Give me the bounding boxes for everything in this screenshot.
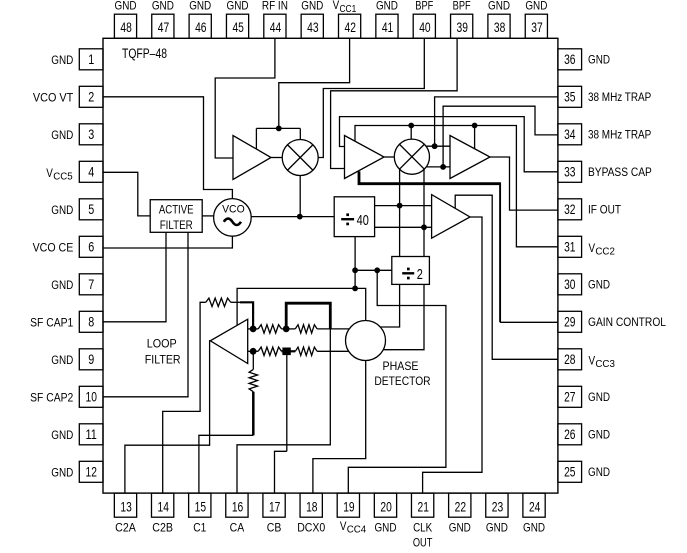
svg-text:13: 13 (120, 499, 132, 515)
pin 41 box (top) (376, 14, 398, 38)
junction dot pin35 tap (432, 143, 438, 149)
svg-text:33: 33 (564, 164, 576, 180)
wire: A2 output to M2 (384, 156, 394, 158)
pin 45 box (top) (226, 14, 248, 38)
svg-text:CLK: CLK (413, 521, 433, 535)
wire: div40 bottom down (354, 237, 356, 289)
svg-text:GND: GND (588, 465, 610, 479)
wire: bold jumper from R2-R3 node over R3 to CA (286, 303, 330, 329)
svg-text:CC5: CC5 (53, 172, 73, 183)
pin 17 box (bottom) (263, 493, 285, 517)
svg-text:GND: GND (227, 0, 249, 12)
IC package outline TQFP-48 (103, 38, 558, 493)
wire: VCC2 rail to A3 top edge (474, 126, 476, 149)
wire: A4 output to CLK OUT pin 21 (423, 217, 482, 493)
svg-text:34: 34 (564, 126, 576, 142)
wire: R4-R5 junction bold (282, 350, 296, 352)
resistor R6 (vertical, below op-amp input) (249, 369, 257, 391)
svg-text:GND: GND (152, 0, 174, 12)
wire: M1 output up and right to BPF pin 40 (318, 38, 424, 157)
junction dot reference node (352, 286, 358, 292)
junction square R4-R5 node (282, 348, 290, 356)
divide-by-40 symbol (341, 218, 354, 220)
pin 4 box (left) (79, 161, 103, 182)
pin 10 box (left) (79, 386, 103, 407)
wire: div40 output 2 to A4 lower input (375, 226, 432, 228)
mixer M2 circle with X (394, 139, 429, 174)
svg-text:GND: GND (51, 53, 73, 67)
wire: M2 LO right down to div2 top (423, 169, 425, 256)
pin 31 box (right) (558, 236, 582, 257)
svg-text:12: 12 (86, 464, 98, 480)
svg-text:VCO: VCO (222, 203, 245, 215)
junction dot op-amp upper input (250, 326, 257, 333)
svg-text:14: 14 (158, 499, 170, 515)
svg-text:CC4: CC4 (347, 525, 367, 536)
svg-text:GND: GND (486, 521, 508, 535)
svg-text:LOOP: LOOP (147, 337, 177, 351)
op-amp U1 (loop filter) triangle pointing left (210, 319, 247, 363)
svg-text:2: 2 (88, 89, 94, 105)
svg-text:GAIN CONTROL: GAIN CONTROL (588, 315, 666, 329)
svg-text:GND: GND (376, 0, 398, 12)
wire: div2 output 2 to phase detector (384, 284, 424, 349)
wire: VCC2 pin 31 rail over A2 M2 A3 (355, 126, 558, 247)
pin 22 box (bottom) (449, 493, 471, 517)
svg-text:47: 47 (158, 19, 170, 35)
svg-text:6: 6 (88, 239, 94, 255)
svg-text:CC1: CC1 (340, 4, 357, 15)
wire: R6 to C1 pin 15 (199, 435, 253, 493)
svg-text:10: 10 (86, 389, 98, 405)
pin 12 box (left) (79, 461, 103, 482)
svg-text:26: 26 (564, 426, 576, 442)
svg-text:23: 23 (492, 499, 504, 515)
wire: op-amp output down to C2A pin 13 (125, 341, 210, 493)
svg-text:41: 41 (382, 19, 394, 35)
pin 32 box (right) (558, 199, 582, 220)
svg-text:8: 8 (88, 314, 94, 330)
svg-text:15: 15 (195, 499, 207, 515)
junction dot R2-R3 node (283, 326, 290, 333)
junction dot VCC2-M2 (408, 123, 414, 129)
wire: M1 LO port down to VCO line (299, 176, 301, 217)
pin 33 box (right) (558, 161, 582, 182)
svg-text:GND: GND (523, 521, 545, 535)
svg-text:44: 44 (270, 19, 282, 35)
svg-text:29: 29 (564, 314, 576, 330)
wire: gain control lower segment to pin 29 (500, 321, 558, 323)
wire: VCC3 pin 28 up to A4 top (455, 195, 558, 359)
svg-text:IF OUT: IF OUT (588, 203, 621, 217)
pin 30 box (right) (558, 274, 582, 295)
svg-text:25: 25 (564, 464, 576, 480)
svg-text:C2A: C2A (115, 521, 136, 535)
svg-text:GND: GND (525, 0, 547, 12)
pin 35 box (right) (558, 86, 582, 107)
pin 19 box (bottom) (337, 493, 359, 517)
svg-text:20: 20 (380, 499, 392, 515)
pin 37 box (top) (525, 14, 547, 38)
junction dot pin34 tap (440, 164, 446, 170)
wire: op-amp lower input stub (248, 350, 259, 352)
wire: M2 LO left down to div2 top (399, 169, 401, 256)
wire: op-amp upper input stub (248, 328, 259, 330)
svg-text:FILTER: FILTER (145, 353, 181, 367)
svg-text:CC2: CC2 (595, 247, 615, 258)
svg-text:GND: GND (51, 128, 73, 142)
wire: R6 bottom lead bold (252, 392, 255, 436)
pin 29 box (right) (558, 311, 582, 332)
svg-text:GND: GND (449, 521, 471, 535)
svg-text:TQFP–48: TQFP–48 (122, 46, 167, 61)
svg-text:16: 16 (232, 499, 244, 515)
pin 26 box (right) (558, 424, 582, 445)
svg-text:48: 48 (120, 19, 132, 35)
svg-text:39: 39 (457, 19, 469, 35)
active filter block (150, 200, 202, 233)
svg-text:GND: GND (51, 278, 73, 292)
svg-text:40: 40 (357, 212, 369, 229)
wire: bias to A1 top edge (255, 128, 257, 148)
svg-text:36: 36 (564, 51, 576, 67)
pin 9 box (left) (79, 349, 103, 370)
junction dot div40 bottom (352, 267, 358, 273)
svg-text:9: 9 (88, 351, 94, 367)
wire: phase detector bottom to DCX0 pin 18 (313, 361, 366, 494)
pin 42 box (top) (339, 14, 361, 38)
wire: VCC5 pin 4 to active filter input (103, 172, 150, 216)
svg-text:V: V (333, 0, 340, 12)
wire: VCC1 pin 42 down and left to bias node (279, 38, 350, 128)
pin 2 box (left) (79, 86, 103, 107)
pin 15 box (bottom) (189, 493, 211, 517)
svg-text:35: 35 (564, 89, 576, 105)
pin 27 box (right) (558, 386, 582, 407)
svg-text:SF CAP1: SF CAP1 (30, 315, 73, 329)
svg-text:ACTIVE: ACTIVE (159, 203, 194, 217)
svg-text:31: 31 (564, 239, 576, 255)
svg-text:V: V (46, 166, 53, 180)
wire: R4-R5 node down (286, 351, 288, 451)
svg-text:C1: C1 (193, 521, 206, 535)
junction dot VCC1 bias node (276, 125, 282, 131)
svg-text:21: 21 (418, 499, 430, 515)
svg-text:5: 5 (88, 201, 94, 217)
pin 43 box (top) (301, 14, 323, 38)
svg-text:OUT: OUT (413, 535, 433, 549)
junction dot op-amp lower input (250, 348, 257, 355)
pin 36 box (right) (558, 49, 582, 70)
pin 1 box (left) (79, 49, 103, 70)
svg-text:4: 4 (88, 164, 94, 180)
svg-text:GND: GND (51, 465, 73, 479)
wire: BPF pin 39 down to A2 lower input (331, 38, 458, 168)
svg-text:18: 18 (306, 499, 318, 515)
divide-by-40 block (334, 197, 374, 237)
wire: VCC2 rail to M2 top (410, 126, 412, 140)
svg-text:GND: GND (588, 278, 610, 292)
wire: BYPASS CAP pin 33 to A2 upper input (340, 117, 558, 172)
wire: R3 to phase detector input 1 (317, 328, 349, 330)
divide-by-2 symbol (402, 272, 414, 274)
svg-text:GND: GND (51, 353, 73, 367)
svg-text:28: 28 (564, 351, 576, 367)
wire: A3 output to IF OUT pin 32 (490, 157, 558, 210)
pin 48 box (top) (114, 14, 136, 38)
svg-text:38: 38 (494, 19, 506, 35)
amplifier A4 (clock buffer) triangle (432, 195, 470, 239)
wire: M2 upper output to A3 (426, 145, 450, 147)
svg-text:19: 19 (343, 499, 355, 515)
svg-text:43: 43 (307, 19, 319, 35)
VCO circle (214, 199, 252, 237)
pin 46 box (top) (189, 14, 211, 38)
wire: R5 to phase detector input 2 (317, 350, 349, 352)
pin 25 box (right) (558, 461, 582, 482)
svg-text:BYPASS CAP: BYPASS CAP (588, 165, 652, 179)
pin 40 box (top) (413, 14, 435, 38)
svg-text:V: V (340, 519, 347, 533)
svg-text:45: 45 (232, 19, 244, 35)
svg-text:GND: GND (51, 203, 73, 217)
resistor R5 (lower row to phase detector) (295, 347, 317, 355)
pin 11 box (left) (79, 424, 103, 445)
divide-by-2 block (392, 257, 430, 285)
svg-text:40: 40 (419, 19, 431, 35)
wire: VCO VT pin 2 to VCO top (103, 97, 232, 199)
svg-text:2: 2 (417, 266, 423, 283)
wire: node to op-amp top edge (237, 288, 355, 325)
wire: RF IN pin 44 to amplifier A1 input (215, 38, 275, 158)
svg-text:32: 32 (564, 201, 576, 217)
pin 47 box (top) (152, 14, 174, 38)
svg-text:11: 11 (86, 426, 98, 442)
pin 16 box (bottom) (226, 493, 248, 517)
svg-text:GND: GND (588, 428, 610, 442)
svg-text:GND: GND (301, 0, 323, 12)
svg-text:46: 46 (195, 19, 207, 35)
wire: SF CAP2 pin 10 to active filter bottom pin 2 (103, 232, 188, 396)
svg-text:30: 30 (564, 276, 576, 292)
pin 13 box (bottom) (114, 493, 136, 517)
svg-text:7: 7 (88, 276, 94, 292)
wire: bias to M1 top (299, 128, 301, 139)
svg-text:CC3: CC3 (595, 359, 615, 370)
pin 28 box (right) (558, 349, 582, 370)
pin 24 box (bottom) (523, 493, 545, 517)
svg-text:C2B: C2B (152, 521, 173, 535)
junction dot VCC4 tap (374, 267, 380, 273)
junction dot div40 out2 node (421, 224, 427, 230)
svg-text:27: 27 (564, 389, 576, 405)
wire: 38 MHz TRAP pin 34 to M2 lower output (443, 106, 558, 167)
svg-text:GND: GND (488, 0, 510, 12)
wire: 38 MHz TRAP pin 35 to M2 upper output (435, 97, 558, 146)
pin 5 box (left) (79, 199, 103, 220)
wire: div40 output 1 to A4 upper input (375, 205, 432, 207)
wire: active filter to VCO (202, 215, 213, 217)
wire: jumper down to CA pin 16 (237, 329, 330, 493)
svg-text:DCX0: DCX0 (297, 521, 325, 535)
pin 44 box (top) (264, 14, 286, 38)
pin 21 box (bottom) (411, 493, 433, 517)
amplifier A3 (IF output amp) triangle (450, 136, 490, 179)
wire: R1 right lead to op-amp input node (231, 301, 241, 303)
wire: A1 output to M1 (271, 157, 282, 159)
pin 8 box (left) (79, 311, 103, 332)
wire: bias node horizontal over A1 and M1 (256, 127, 300, 129)
wire: R2-R3 junction (282, 328, 296, 330)
wire: GAIN CONTROL bold line from A2 bottom to pin 29 (359, 171, 500, 183)
resistor R3 (upper row to phase detector) (295, 325, 317, 333)
svg-text:VCO VT: VCO VT (33, 90, 74, 104)
pin 38 box (top) (488, 14, 510, 38)
wire: div40 bottom node to div2 input (355, 269, 392, 271)
svg-text:24: 24 (529, 499, 541, 515)
svg-text:1: 1 (88, 51, 94, 67)
svg-text:CB: CB (267, 521, 282, 535)
svg-text:42: 42 (345, 19, 357, 35)
svg-text:17: 17 (269, 499, 281, 515)
wire: to CB pin 17 (275, 451, 287, 493)
svg-text:V: V (589, 353, 596, 367)
phase detector circle (346, 321, 386, 361)
svg-text:GND: GND (588, 53, 610, 67)
amplifier A2 (IF amp) triangle (345, 136, 385, 179)
wire: R6 top lead (252, 351, 254, 369)
wire: VCO output to divider input (251, 216, 334, 218)
mixer M1 circle with X (282, 140, 318, 176)
svg-text:3: 3 (88, 126, 94, 142)
pin 3 box (left) (79, 124, 103, 145)
svg-text:38 MHz TRAP: 38 MHz TRAP (588, 90, 651, 104)
wire: node to phase detector top (355, 288, 366, 320)
svg-text:38 MHz TRAP: 38 MHz TRAP (588, 128, 651, 142)
wire: VCC4 pin 19 up to div2 input rail (348, 270, 446, 493)
svg-text:BPF: BPF (453, 0, 471, 12)
pin 39 box (top) (451, 14, 473, 38)
pin 23 box (bottom) (486, 493, 508, 517)
svg-text:GND: GND (51, 428, 73, 442)
pin 20 box (bottom) (374, 493, 396, 517)
svg-text:PHASE: PHASE (383, 359, 419, 373)
pin 7 box (left) (79, 274, 103, 295)
svg-text:VCO CE: VCO CE (33, 240, 74, 254)
amplifier A1 (RF preamp) triangle (233, 136, 271, 180)
resistor R1 (op-amp feedback) (206, 298, 231, 306)
junction dot VCO output node (297, 214, 303, 220)
wire: M2 lower output to A3 (426, 166, 450, 168)
svg-text:RF IN: RF IN (262, 0, 288, 12)
wire: div2 output 1 to phase detector (381, 284, 400, 327)
wire: VCO CE pin 6 to VCO bottom (103, 236, 232, 248)
junction dot div40 out1 node (397, 203, 403, 209)
wire: R1 left lead down to C2B pin 14 (163, 302, 206, 493)
svg-text:22: 22 (455, 499, 467, 515)
svg-text:BPF: BPF (415, 0, 433, 12)
svg-text:SF CAP2: SF CAP2 (30, 390, 73, 404)
pin 14 box (bottom) (151, 493, 173, 517)
pin 34 box (right) (558, 124, 582, 145)
pin 6 box (left) (79, 236, 103, 257)
resistor R4 (input, lower row) (258, 347, 281, 355)
svg-text:GND: GND (588, 390, 610, 404)
svg-text:GND: GND (189, 0, 211, 12)
junction dot VCC2-A3 (472, 123, 478, 129)
svg-text:GND: GND (374, 521, 396, 535)
pin 18 box (bottom) (300, 493, 322, 517)
svg-text:FILTER: FILTER (160, 218, 193, 232)
svg-text:GND: GND (115, 0, 137, 12)
svg-text:CA: CA (230, 521, 245, 535)
svg-text:DETECTOR: DETECTOR (374, 374, 430, 388)
VCO sine symbol (224, 219, 241, 225)
svg-text:V: V (589, 241, 596, 255)
svg-text:37: 37 (531, 19, 543, 35)
wire: SF CAP1 pin 8 to active filter bottom pin 1 (103, 232, 166, 321)
resistor R2 (input, upper row) (258, 325, 281, 333)
